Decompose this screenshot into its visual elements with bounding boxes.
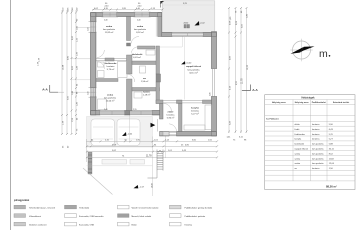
svg-text:Padlóburkolat: greslap burkola: Padlóburkolat: greslap burkolat xyxy=(185,206,213,209)
svg-text:1,50: 1,50 xyxy=(87,92,89,96)
svg-text:Válaszfalazat: Válaszfalazat xyxy=(29,215,41,218)
svg-text:lam.parketta: lam.parketta xyxy=(312,162,324,165)
svg-text:A-A: A-A xyxy=(42,87,48,91)
svg-text:Helyiség neve: Helyiség neve xyxy=(272,102,287,104)
svg-text:Padlóburkolat: Padlóburkolat xyxy=(312,101,326,104)
svg-text:kerámia: kerámia xyxy=(312,123,320,126)
svg-text:kerámia: kerámia xyxy=(312,167,320,170)
svg-text:szoba: szoba xyxy=(137,26,144,28)
svg-text:11,78: 11,78 xyxy=(241,78,243,84)
svg-text:5,90 m²: 5,90 m² xyxy=(167,117,175,120)
svg-text:szoba: szoba xyxy=(295,163,301,165)
svg-text:közlekedő: közlekedő xyxy=(295,144,305,146)
svg-text:előtér: előtér xyxy=(168,111,174,114)
svg-text:Helyiség neve: Helyiség neve xyxy=(295,102,310,104)
svg-text:5,27 m²: 5,27 m² xyxy=(191,113,199,116)
svg-text:1,19 m²: 1,19 m² xyxy=(143,93,151,96)
svg-text:Kavicsolás, OSB lemezelés: Kavicsolás, OSB lemezelés xyxy=(79,216,103,218)
svg-text:fürdő: fürdő xyxy=(295,128,301,131)
svg-text:jelmagyarázat: jelmagyarázat xyxy=(13,199,29,202)
svg-text:lam.parketta: lam.parketta xyxy=(312,157,324,160)
svg-text:Kerámia: Kerámia xyxy=(185,224,193,226)
svg-text:11,78: 11,78 xyxy=(146,156,152,158)
svg-text:8,52 m²: 8,52 m² xyxy=(136,31,144,34)
svg-text:32,11 m²: 32,11 m² xyxy=(189,72,198,75)
svg-text:m: m xyxy=(319,48,328,60)
svg-text:Térburkolat: Térburkolat xyxy=(79,206,90,209)
svg-text:kamra: kamra xyxy=(143,92,150,94)
svg-text:lam.parketta: lam.parketta xyxy=(103,28,116,31)
svg-text:20/20: 20/20 xyxy=(184,23,189,25)
svg-text:szoba: szoba xyxy=(295,158,301,160)
svg-text:kerámia: kerámia xyxy=(167,114,176,117)
svg-text:2,40: 2,40 xyxy=(104,109,108,111)
svg-text:2,80: 2,80 xyxy=(209,93,211,97)
svg-text:Meszelt, külső vakolat: Meszelt, külső vakolat xyxy=(132,215,152,218)
svg-text:kerámia: kerámia xyxy=(312,128,320,131)
svg-text:5,70 m²: 5,70 m² xyxy=(107,68,115,71)
svg-text:±0,00: ±0,00 xyxy=(186,62,192,64)
svg-text:lam.parketta: lam.parketta xyxy=(312,143,324,146)
svg-text:11,82: 11,82 xyxy=(329,158,335,160)
svg-text:Számított terület: Számított terület xyxy=(333,101,350,104)
svg-text:kerámia: kerámia xyxy=(107,65,116,68)
svg-text:lam.parketta: lam.parketta xyxy=(187,68,200,71)
svg-text:±0,00: ±0,00 xyxy=(151,183,153,188)
svg-text:nappali étkező: nappali étkező xyxy=(295,148,309,151)
svg-text:A-A: A-A xyxy=(252,88,258,92)
svg-text:fsz Földszint: fsz Földszint xyxy=(266,118,279,121)
svg-text:Vasbeton szerkezet: Vasbeton szerkezet xyxy=(29,223,47,226)
svg-text:1,50: 1,50 xyxy=(87,28,89,32)
svg-text:10,28: 10,28 xyxy=(62,64,64,70)
svg-text:wc: wc xyxy=(295,168,298,170)
svg-text:fürdőszoba: fürdőszoba xyxy=(105,63,118,65)
svg-text:12,04 m²: 12,04 m² xyxy=(106,100,115,103)
svg-text:kerámia: kerámia xyxy=(312,133,320,136)
svg-text:11,82 m²: 11,82 m² xyxy=(105,31,114,34)
svg-text:kerámia: kerámia xyxy=(191,110,200,113)
svg-text:32,11: 32,11 xyxy=(329,149,335,151)
svg-text:1,50 m²: 1,50 m² xyxy=(141,80,149,83)
svg-text:12,33: 12,33 xyxy=(247,64,249,70)
svg-text:2,40: 2,40 xyxy=(137,19,141,21)
svg-text:2,15: 2,15 xyxy=(133,109,137,111)
svg-text:szoba: szoba xyxy=(106,26,113,28)
svg-text:Beton: Beton xyxy=(132,223,137,226)
svg-text:6,43 m²: 6,43 m² xyxy=(133,56,141,59)
svg-text:szoba: szoba xyxy=(295,153,301,155)
svg-text:konyha: konyha xyxy=(191,108,199,110)
svg-text:Kavicsolás, OSB: Kavicsolás, OSB xyxy=(79,224,95,226)
svg-text:lam.parketta: lam.parketta xyxy=(104,97,117,100)
svg-text:Teherhordó falazat - tervezett: Teherhordó falazat - tervezett xyxy=(29,206,55,209)
svg-text:szoba: szoba xyxy=(107,95,114,97)
svg-text:nappali étkező: nappali étkező xyxy=(186,65,202,68)
svg-text:2,40: 2,40 xyxy=(104,19,108,21)
svg-text:lam.parketta: lam.parketta xyxy=(312,148,324,151)
svg-text:lam.parketta: lam.parketta xyxy=(312,152,324,155)
svg-text:előtér: előtér xyxy=(295,123,301,126)
svg-text:12,04: 12,04 xyxy=(329,163,335,165)
svg-text:lam.parketta: lam.parketta xyxy=(134,28,147,31)
svg-text:88,26 m²: 88,26 m² xyxy=(326,185,337,189)
svg-text:Helyiségek: Helyiségek xyxy=(301,96,315,99)
svg-text:fürdőszoba: fürdőszoba xyxy=(295,133,306,136)
svg-text:konyha: konyha xyxy=(295,139,303,141)
svg-text:Padlóburkolat: parketta: Padlóburkolat: parketta xyxy=(185,215,206,218)
svg-text:Vakolt / tervezett külső vakol: Vakolt / tervezett külső vakolat xyxy=(132,206,159,209)
svg-text:kerámia: kerámia xyxy=(312,138,320,141)
